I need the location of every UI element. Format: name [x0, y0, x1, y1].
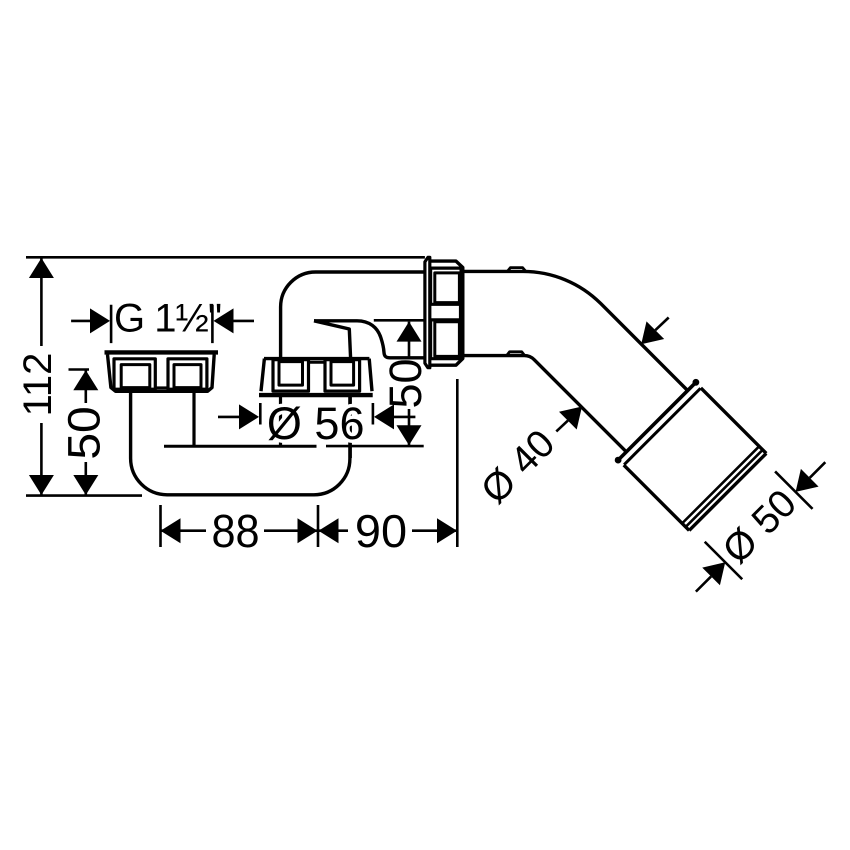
svg-text:50: 50 [380, 358, 431, 408]
svg-text:88: 88 [211, 505, 259, 557]
svg-text:Ø 56: Ø 56 [267, 398, 365, 449]
svg-text:112: 112 [16, 353, 60, 417]
svg-text:50: 50 [59, 406, 110, 459]
svg-text:G 1½": G 1½" [114, 297, 221, 341]
svg-text:90: 90 [355, 505, 407, 557]
